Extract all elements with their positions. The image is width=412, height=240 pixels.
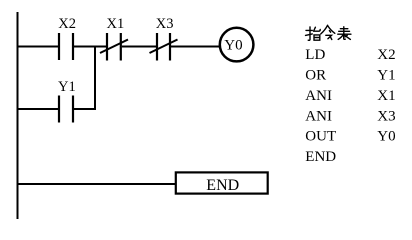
left power rail [17,12,19,219]
svg-text:ANI: ANI [305,108,332,124]
svg-text:LD: LD [305,47,325,63]
svg-text:X3: X3 [377,108,395,124]
wire X3 to coil [171,46,220,48]
row END [305,149,336,165]
wire rung1 left segment [17,46,59,48]
row OR Y1 [305,67,395,83]
svg-text:X2: X2 [377,47,395,63]
char 指 [306,27,321,40]
wire X2 to X1 [74,46,107,48]
svg-text:Y0: Y0 [377,129,395,145]
contact X3 (NC) [150,33,178,61]
svg-text:X2: X2 [58,16,76,32]
char 令 [321,25,335,39]
svg-text:OUT: OUT [305,129,336,145]
svg-text:Y1: Y1 [377,67,395,83]
char 表 [338,27,351,40]
wire Y1 to connector [74,108,96,110]
row ANI X3 [305,108,395,124]
wire rung3 [17,183,177,185]
row ANI X1 [305,88,395,104]
row LD X2 [305,47,395,63]
vertical branch connector [94,46,96,111]
label Y1 [58,79,76,95]
svg-text:Y1: Y1 [58,79,76,95]
label X2 [58,16,76,32]
label END (box) [206,177,239,194]
output coil Y0 [220,28,254,62]
wire X1 to X3 [122,46,157,48]
svg-text:Y0: Y0 [224,38,242,54]
svg-text:END: END [206,177,239,194]
contact X2 [59,33,73,60]
label X3 [156,16,174,32]
svg-text:ANI: ANI [305,88,332,104]
row OUT Y0 [305,129,395,145]
svg-text:X3: X3 [156,16,174,32]
svg-text:X1: X1 [107,16,125,32]
END instruction box [176,172,268,193]
svg-text:X1: X1 [377,88,395,104]
label Y0 [224,38,242,54]
svg-text:END: END [305,149,336,165]
heading 指令表 (hand-drawn CJK) [306,25,351,40]
wire rung2 left segment [17,108,59,110]
contact Y1 [59,96,73,123]
svg-text:OR: OR [305,67,326,83]
contact X1 (NC) [100,33,128,61]
label X1 [107,16,125,32]
